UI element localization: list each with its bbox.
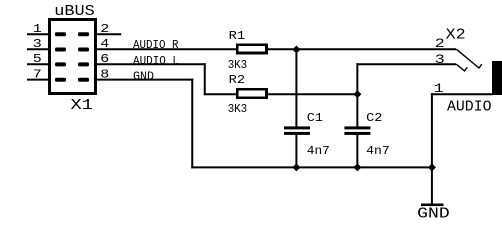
svg-text:2: 2 <box>100 22 109 36</box>
svg-text:6: 6 <box>100 52 109 66</box>
svg-text:4n7: 4n7 <box>366 144 390 158</box>
svg-text:AUDIO_R: AUDIO_R <box>133 38 179 52</box>
svg-text:GND: GND <box>417 206 450 219</box>
svg-text:C2: C2 <box>366 111 382 125</box>
svg-text:2: 2 <box>435 36 445 51</box>
svg-text:X1: X1 <box>71 97 94 114</box>
svg-text:GND: GND <box>133 69 154 83</box>
svg-text:4: 4 <box>100 37 109 51</box>
svg-text:R1: R1 <box>229 29 246 43</box>
svg-text:R2: R2 <box>229 73 246 87</box>
svg-text:5: 5 <box>33 52 42 66</box>
svg-text:1: 1 <box>33 22 42 36</box>
svg-text:uBUS: uBUS <box>54 3 95 20</box>
svg-text:3: 3 <box>33 37 42 51</box>
svg-text:3K3: 3K3 <box>228 102 248 116</box>
svg-text:C1: C1 <box>307 111 323 125</box>
svg-text:8: 8 <box>100 67 109 81</box>
svg-text:X2: X2 <box>446 27 466 44</box>
svg-text:3: 3 <box>435 52 445 67</box>
svg-text:AUDIO_L: AUDIO_L <box>133 54 179 68</box>
svg-text:4n7: 4n7 <box>307 144 330 158</box>
svg-text:7: 7 <box>33 67 42 81</box>
svg-text:3K3: 3K3 <box>228 58 248 72</box>
svg-text:1: 1 <box>434 81 444 96</box>
svg-text:AUDIO: AUDIO <box>447 99 492 116</box>
